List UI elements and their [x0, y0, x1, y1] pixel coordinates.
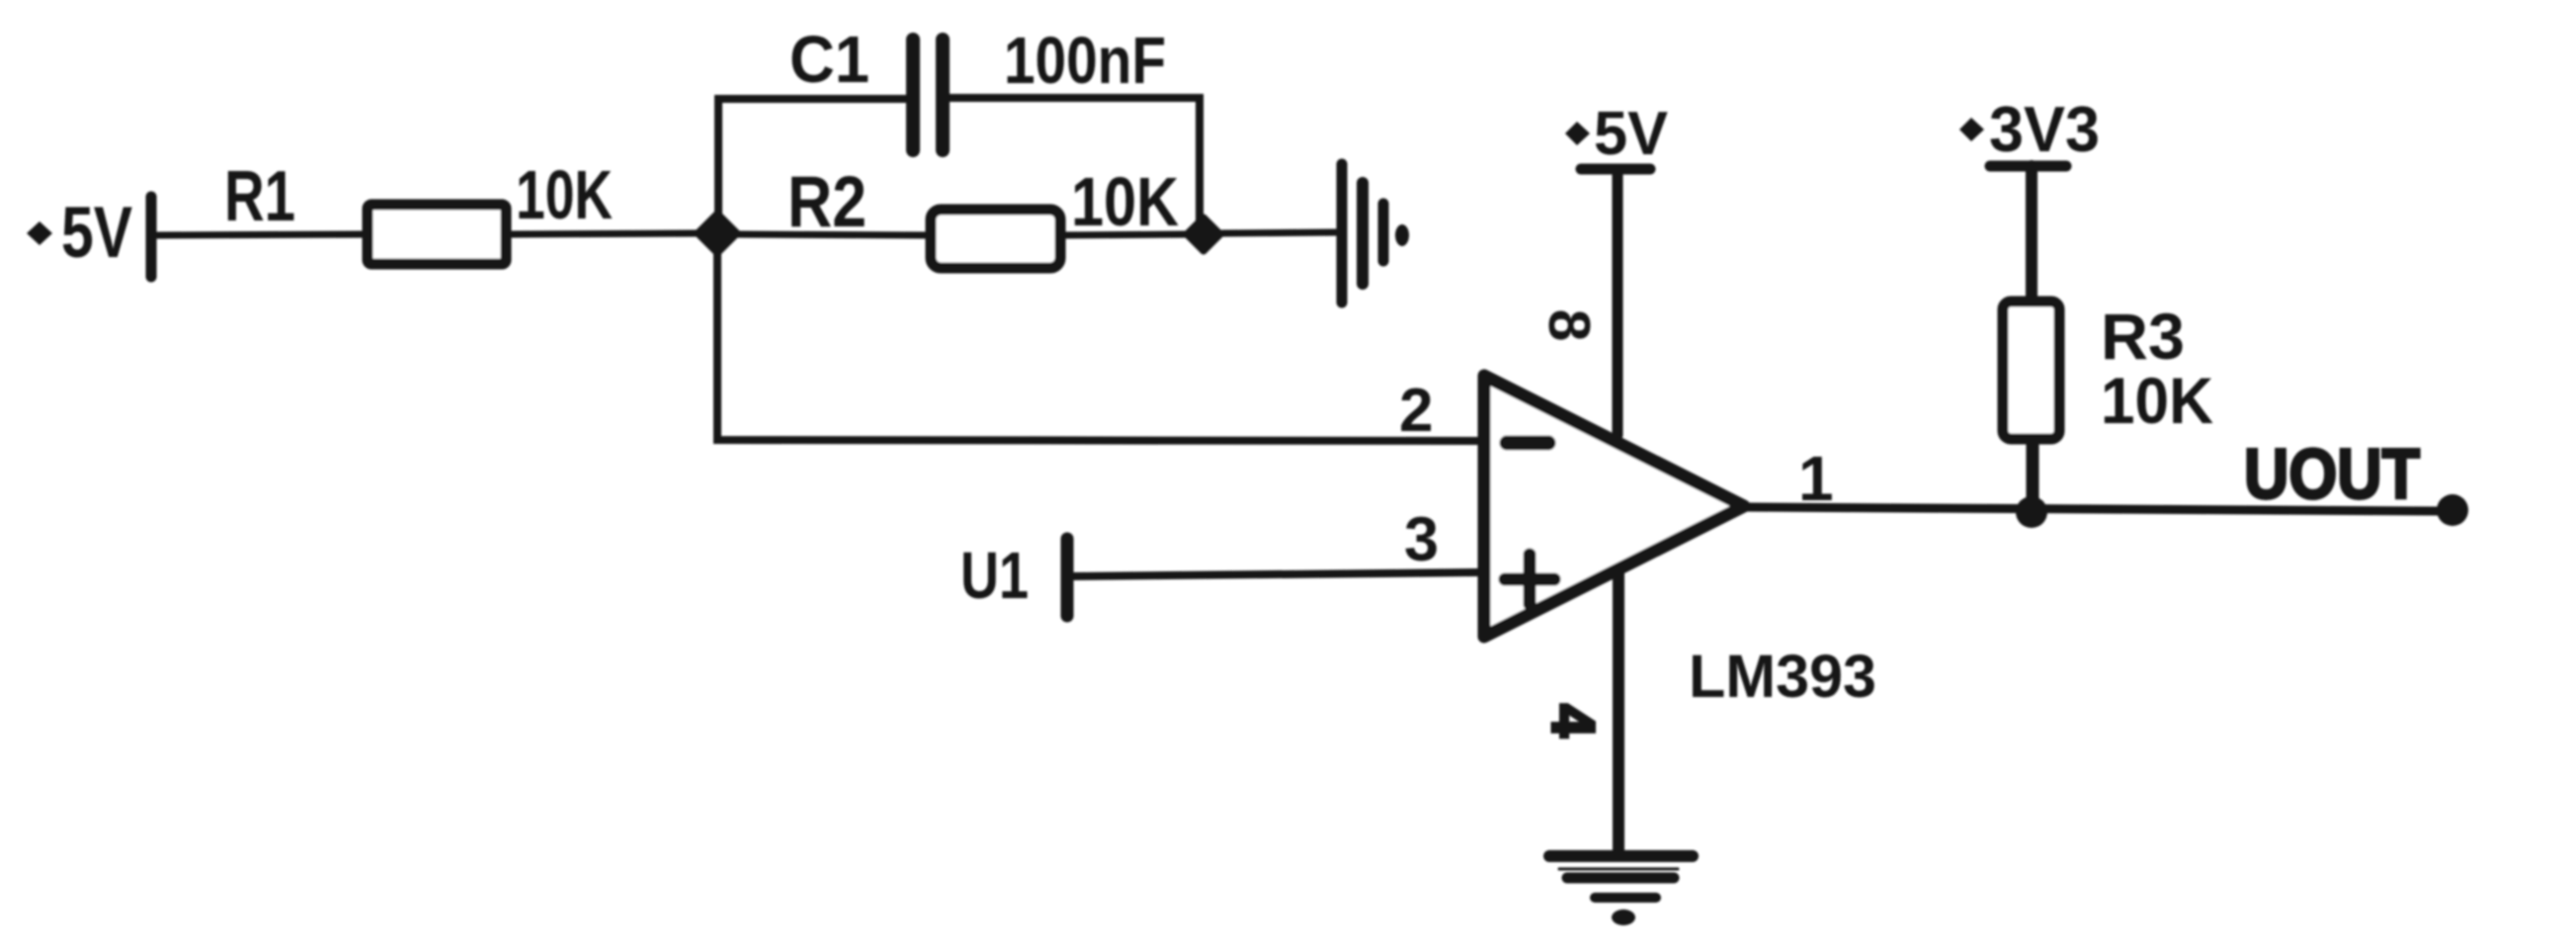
wire C1 to node B [950, 98, 1200, 233]
svg-text:4: 4 [1540, 704, 1607, 737]
svg-text:3V3: 3V3 [1989, 93, 2100, 165]
wire pin 1 output [1747, 507, 2441, 511]
power terminal +5V (top) [1565, 100, 1668, 169]
svg-text:1: 1 [1798, 443, 1834, 514]
svg-text:UOUT: UOUT [2244, 436, 2420, 514]
non-inverting input plus sign [1505, 555, 1554, 604]
svg-text:LM393: LM393 [1689, 643, 1876, 710]
wire R3 to +3V3 [2026, 166, 2037, 301]
svg-text:R2: R2 [788, 162, 867, 242]
node A (junction) [698, 214, 737, 253]
wire node A up to C1 [718, 99, 906, 233]
ground (bottom) [1549, 856, 1693, 925]
svg-text:R1: R1 [224, 157, 295, 236]
ground (right side, rotated) [1342, 164, 1409, 302]
power terminal +3V3 [1959, 93, 2100, 166]
input terminal U1 [1061, 539, 1074, 616]
resistor R2 [931, 210, 1060, 268]
resistor R3 [2003, 302, 2059, 439]
wire R1 to node A [512, 233, 698, 234]
inverting input minus sign [1507, 436, 1548, 451]
svg-text:3: 3 [1404, 505, 1439, 574]
wire pin 4 to ground [1613, 573, 1624, 856]
wire U1 to pin 3 [1073, 572, 1479, 576]
svg-text:R3: R3 [2101, 300, 2185, 373]
svg-text:2: 2 [1399, 377, 1433, 445]
power terminal +5V (left) [27, 193, 151, 277]
wire node A to R2 [738, 234, 934, 235]
svg-text:5V: 5V [1594, 100, 1668, 168]
svg-text:8: 8 [1537, 309, 1602, 342]
svg-text:10K: 10K [1071, 163, 1179, 240]
wire node C to R3 [2027, 438, 2039, 508]
svg-text:10K: 10K [2101, 364, 2213, 437]
wire +5V to pin 8 [1613, 170, 1623, 435]
svg-text:100nF: 100nF [1004, 24, 1166, 98]
svg-text:C1: C1 [789, 23, 870, 97]
wire R2 to node B [1060, 234, 1186, 235]
wire node A down to pin 2 [717, 254, 1479, 441]
wire node B to ground [1222, 232, 1340, 233]
wire +5V to R1 [156, 234, 366, 235]
output endpoint dot [2437, 494, 2468, 526]
resistor R1 [368, 205, 506, 264]
capacitor C1 [913, 40, 943, 150]
node B (junction) [1187, 217, 1220, 251]
svg-text:5V: 5V [61, 193, 132, 273]
op-amp U1 LM393 [1484, 376, 1744, 637]
svg-text:U1: U1 [960, 539, 1029, 613]
node C (junction) [2016, 496, 2047, 528]
svg-text:10K: 10K [516, 156, 613, 233]
